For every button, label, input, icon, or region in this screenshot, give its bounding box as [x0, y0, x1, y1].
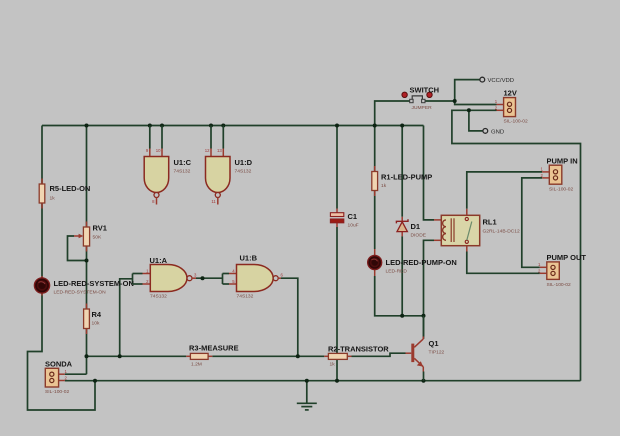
resistor R4 — [84, 304, 102, 335]
svg-text:RL1: RL1 — [483, 218, 497, 227]
diode D1 — [396, 217, 426, 239]
svg-text:G2RL-14B-DC12: G2RL-14B-DC12 — [483, 229, 521, 235]
wire measure rail — [87, 355, 325, 357]
ground — [297, 403, 317, 410]
LED LED-RED-SYSTEM-ON — [34, 276, 134, 296]
wire left vertical with R5/LED branch — [28, 126, 96, 411]
svg-text:SONDA: SONDA — [45, 360, 73, 369]
wire RV1-R4 vertical — [86, 126, 88, 375]
svg-text:SIL-100-02: SIL-100-02 — [547, 282, 571, 288]
nand gate U1:A — [133, 256, 198, 300]
svg-text:R5-LED-ON: R5-LED-ON — [50, 184, 91, 193]
svg-text:DIODE: DIODE — [411, 233, 427, 239]
svg-text:10: 10 — [156, 148, 161, 153]
svg-text:LED-RED-PUMP-ON: LED-RED-PUMP-ON — [386, 258, 457, 267]
resistor R5-LED-ON — [39, 179, 90, 209]
svg-text:RV1: RV1 — [93, 224, 107, 233]
wire U1:A input from measure rail — [120, 279, 133, 357]
svg-text:U1:C: U1:C — [174, 158, 192, 167]
wire U1:B input bracket — [222, 274, 224, 285]
svg-text:1k: 1k — [381, 183, 387, 189]
wire top rail — [42, 125, 424, 127]
svg-text:LED-RED: LED-RED — [386, 269, 408, 275]
resistor R1-LED-PUMP — [372, 166, 432, 196]
capacitor C1 — [330, 209, 358, 229]
svg-text:SIL-100-02: SIL-100-02 — [504, 119, 528, 125]
wire VCC branch — [455, 80, 480, 101]
connector 12V — [495, 89, 528, 125]
svg-text:13: 13 — [217, 148, 222, 153]
LED LED-RED-PUMP-ON — [368, 249, 457, 276]
power terminal VCC/VDD — [480, 77, 514, 84]
svg-text:1k: 1k — [330, 362, 336, 368]
wire relay common to PUMP OUT pin2 — [467, 252, 540, 274]
svg-text:LED-RED-SYSTEM-ON: LED-RED-SYSTEM-ON — [54, 290, 107, 296]
nand gate U1:B — [223, 254, 284, 300]
svg-text:74S132: 74S132 — [174, 169, 191, 175]
svg-text:12V: 12V — [504, 89, 517, 98]
svg-text:R3-MEASURE: R3-MEASURE — [189, 344, 239, 353]
wire SONDA pin1 to divider — [65, 373, 87, 375]
wire D1 vertical — [401, 126, 403, 316]
wire C1 vertical — [336, 126, 338, 381]
wire switch left leg — [375, 101, 410, 126]
svg-text:VCC/VDD: VCC/VDD — [488, 78, 515, 84]
wire 12V pin2 to right edge ground — [452, 110, 581, 380]
connector SONDA — [45, 360, 73, 395]
wire switch right to 12V pin1 — [425, 101, 497, 105]
svg-text:TIP122: TIP122 — [429, 350, 445, 356]
wire U1:B output down to measure rail — [281, 278, 298, 356]
svg-text:74S132: 74S132 — [237, 294, 254, 300]
svg-text:LED-RED-SYSTEM-ON: LED-RED-SYSTEM-ON — [54, 279, 134, 288]
wire R2 to Q1 base — [352, 353, 406, 356]
transistor Q1 — [406, 316, 445, 381]
potentiometer RV1 — [74, 222, 107, 252]
relay RL1 — [434, 209, 520, 252]
wire PUMP IN pin2 to PUMP OUT pin1 — [522, 178, 542, 267]
svg-text:R4: R4 — [92, 310, 102, 319]
svg-text:PUMP IN: PUMP IN — [547, 157, 578, 166]
nand gate U1:C — [144, 126, 191, 205]
svg-text:JUMPER: JUMPER — [412, 105, 433, 111]
svg-text:74S132: 74S132 — [150, 294, 167, 300]
svg-text:D1: D1 — [411, 222, 421, 231]
resistor R3-MEASURE — [186, 344, 238, 368]
svg-text:U1:D: U1:D — [235, 158, 253, 167]
wire LED pump vertical — [375, 126, 424, 316]
wire U1:A input bracket — [132, 274, 134, 285]
svg-text:SWITCH: SWITCH — [410, 86, 440, 95]
svg-text:PUMP OUT: PUMP OUT — [547, 253, 587, 262]
wire GND branch — [469, 110, 483, 131]
svg-text:R1-LED-PUMP: R1-LED-PUMP — [381, 173, 432, 182]
svg-text:SIL-100-02: SIL-100-02 — [549, 186, 573, 192]
nand gate U1:D — [205, 126, 253, 205]
svg-text:1k: 1k — [50, 196, 56, 202]
svg-text:U1:B: U1:B — [240, 254, 258, 263]
wire RV1 wiper loop — [68, 236, 87, 261]
svg-text:R2-TRANSISTOR: R2-TRANSISTOR — [328, 344, 389, 353]
switch jumper SWITCH — [402, 86, 439, 112]
svg-text:C1: C1 — [348, 212, 358, 221]
connector PUMP IN — [541, 157, 578, 193]
svg-text:11: 11 — [211, 199, 216, 204]
svg-text:U1:A: U1:A — [150, 256, 168, 265]
svg-text:SIL-100-02: SIL-100-02 — [45, 389, 69, 395]
wire U1:A output to U1:B — [196, 277, 223, 279]
svg-text:10uF: 10uF — [348, 223, 359, 229]
svg-text:1.2M: 1.2M — [191, 361, 202, 367]
svg-text:Q1: Q1 — [429, 339, 439, 348]
power terminal GND — [483, 129, 504, 136]
wire ground symbol stem — [306, 381, 308, 404]
svg-text:GND: GND — [491, 129, 504, 135]
connector PUMP OUT — [538, 253, 586, 288]
wire relay coil feed — [424, 126, 435, 220]
svg-text:10k: 10k — [92, 321, 100, 327]
wire bottom rail — [65, 380, 581, 382]
wire relay coil to collector — [424, 240, 435, 339]
svg-text:50K: 50K — [93, 235, 102, 241]
svg-text:74S132: 74S132 — [235, 169, 252, 175]
wire relay NO to PUMP IN pin1 — [467, 172, 542, 209]
resistor R2-TRANSISTOR — [324, 344, 389, 367]
svg-text:12: 12 — [205, 148, 210, 153]
